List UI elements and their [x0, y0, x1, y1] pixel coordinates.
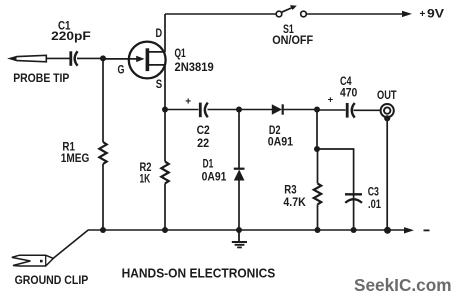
node E junction	[314, 146, 320, 152]
svg-text:9V: 9V	[427, 9, 444, 21]
resistor R3	[314, 183, 321, 204]
svg-text:Q1: Q1	[175, 48, 187, 60]
svg-text:1MEG: 1MEG	[61, 153, 90, 165]
node J C3/bus junction	[351, 227, 357, 233]
wire C4 to jack	[353, 109, 380, 111]
svg-text:R3: R3	[284, 184, 296, 196]
wire R1 to ground bus	[102, 164, 104, 230]
wire R3 to ground bus	[317, 204, 319, 230]
wire node B to C2	[165, 109, 199, 111]
resistor R2	[161, 162, 168, 184]
svg-text:+: +	[328, 95, 334, 106]
wire jack to ground bus	[386, 118, 388, 230]
ground clip	[12, 255, 54, 266]
node K OUT/bus junction	[384, 227, 391, 234]
wire node E to C3 branch	[317, 149, 354, 194]
node G R2/bus junction	[162, 227, 168, 233]
negative rail arrow	[404, 227, 414, 233]
node C junction	[236, 107, 242, 113]
svg-text:S: S	[156, 79, 163, 91]
svg-text:4.7K: 4.7K	[283, 197, 306, 209]
node A junction	[100, 55, 106, 61]
ground symbol	[232, 230, 247, 247]
wire node D to C4	[317, 109, 346, 111]
wire D2 to node D	[283, 109, 317, 111]
svg-text:+: +	[420, 9, 426, 20]
resistor R1	[99, 142, 106, 164]
svg-text:D: D	[156, 28, 163, 40]
wire R2 to ground bus	[164, 184, 166, 231]
svg-text:OUT: OUT	[377, 90, 397, 102]
wire node A down to R1	[102, 58, 104, 142]
probe tip	[10, 55, 47, 62]
svg-text:.01: .01	[368, 199, 381, 211]
capacitor C4	[347, 103, 355, 118]
svg-text:R1: R1	[62, 141, 75, 153]
diode D2	[272, 104, 283, 114]
diode D1	[234, 169, 245, 181]
transistor Q1	[129, 42, 166, 79]
wire drain to top rail	[164, 14, 166, 52]
svg-text:220pF: 220pF	[51, 31, 91, 43]
node B source/C2 junction	[162, 107, 168, 113]
svg-text:22: 22	[197, 138, 209, 150]
wire C2 to node C	[208, 109, 240, 111]
wire C3 to ground bus	[353, 194, 355, 230]
wire source down to R2	[164, 65, 166, 162]
svg-text:C3: C3	[368, 187, 379, 199]
svg-text:SeekIC.com: SeekIC.com	[354, 275, 452, 295]
wire C1 to node A	[77, 57, 103, 59]
diagonal wire ground clip to bus	[53, 230, 89, 259]
svg-text:HANDS-ON ELECTRONICS: HANDS-ON ELECTRONICS	[122, 266, 276, 281]
wire node D down to node E	[316, 110, 318, 150]
svg-text:470: 470	[340, 88, 357, 100]
svg-text:C2: C2	[197, 125, 210, 137]
minus dash	[424, 229, 430, 231]
wire probe tip to C1	[46, 57, 70, 59]
capacitor C1	[71, 51, 78, 66]
svg-text:0A91: 0A91	[268, 136, 294, 148]
node D junction	[314, 107, 320, 113]
capacitor C2	[200, 103, 208, 118]
svg-text:0A91: 0A91	[202, 171, 227, 183]
+9V supply arrow	[402, 11, 412, 17]
node I R3/bus junction	[315, 227, 321, 233]
svg-text:C4: C4	[340, 76, 352, 88]
svg-text:R2: R2	[140, 162, 152, 174]
wire node C down to D1	[238, 110, 240, 170]
svg-text:1K: 1K	[140, 174, 151, 186]
svg-text:G: G	[118, 65, 125, 77]
svg-text:+: +	[185, 97, 191, 108]
wire top rail left segment	[165, 13, 276, 15]
svg-text:D2: D2	[269, 125, 281, 137]
wire D1 to ground bus	[238, 181, 240, 231]
output jack OUT	[381, 104, 394, 121]
svg-text:PROBE TIP: PROBE TIP	[13, 73, 69, 85]
node H D1/bus junction	[236, 227, 242, 233]
wire top rail right segment	[307, 13, 405, 15]
svg-text:2N3819: 2N3819	[175, 62, 214, 74]
wire node C to D2	[239, 109, 273, 111]
wire node A to gate	[103, 58, 137, 60]
capacitor C3	[345, 194, 362, 203]
svg-text:ON/OFF: ON/OFF	[272, 35, 313, 47]
svg-text:D1: D1	[203, 159, 214, 171]
switch S1	[276, 5, 306, 16]
ground bus wire	[88, 229, 406, 231]
wire node E down to R3	[317, 149, 319, 183]
node F R1/bus junction	[100, 227, 106, 233]
svg-text:GROUND CLIP: GROUND CLIP	[15, 275, 89, 287]
